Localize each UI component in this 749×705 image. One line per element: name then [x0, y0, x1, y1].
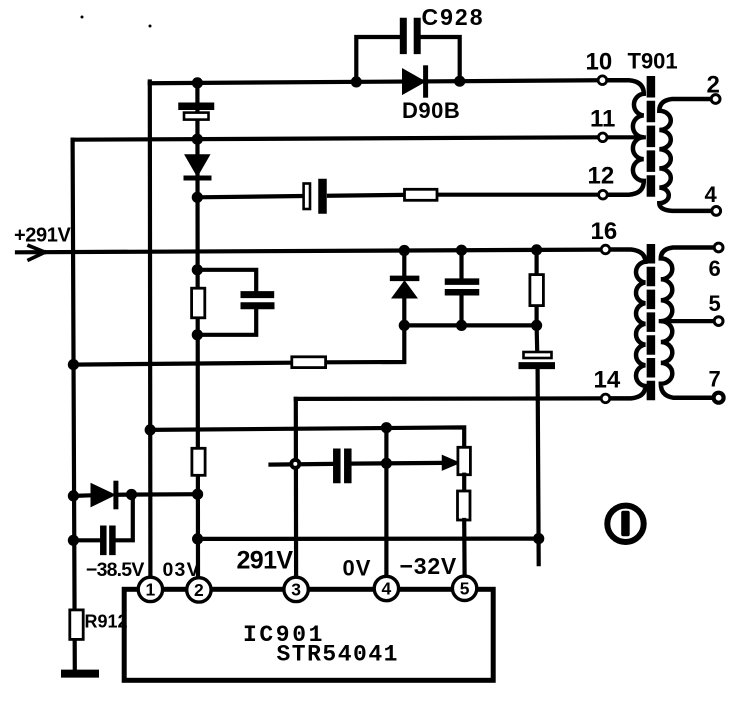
arrowhead at potentiometer: [443, 456, 459, 470]
capacitor C928 loop wire: [356, 37, 459, 82]
svg-text:T901: T901: [628, 49, 678, 74]
transformer T901 primary winding (terminals 10/11/12): [600, 80, 644, 194]
speck top left 2: [149, 25, 152, 28]
svg-text:12: 12: [588, 162, 615, 189]
wire line to terminal 12: [197, 195, 597, 198]
terminal 12: [599, 190, 608, 199]
junction diode line bus3: [192, 489, 203, 500]
svg-text:1: 1: [146, 580, 156, 600]
capacitor (arrow line x=340) plates: [337, 452, 348, 479]
capacitor (electrolytic x=537 below bus): [522, 325, 552, 564]
junction RC top: [192, 264, 203, 275]
wire terminal 11 to winding: [600, 135, 644, 139]
resistor (bus3 x=197 upper): [192, 288, 205, 318]
transformer T902 core: [647, 244, 656, 403]
pin 2 circle: [187, 578, 211, 602]
wire bus 3 vertical (x=197): [195, 82, 200, 576]
junction bus3 line12: [192, 192, 203, 203]
capacitor (parallel RC, x=256) wire loop: [197, 270, 256, 335]
capacitor (left, y540): [73, 494, 132, 552]
resistor (on y363 line): [292, 357, 326, 368]
svg-text:11: 11: [590, 106, 615, 133]
terminal 16: [601, 245, 610, 254]
wire pin3 vertical and corner to line14: [294, 399, 299, 576]
junction diode line cap stub: [126, 489, 137, 500]
symbol circled-I bar: [621, 511, 630, 537]
wire y363 from bus1 to lower bus: [73, 325, 404, 364]
resistor (x=536 between +291V and lower bus): [530, 250, 544, 325]
capacitor (electrolytic, on line12 x=316): [304, 183, 323, 210]
junction C928 right: [454, 76, 465, 87]
svg-text:10: 10: [586, 49, 613, 76]
junction bus3 top line: [192, 77, 203, 88]
svg-text:03V: 03V: [163, 559, 201, 581]
speck top left: [81, 16, 84, 19]
svg-text:D90B: D90B: [402, 98, 460, 123]
svg-text:+291V: +291V: [14, 225, 71, 247]
svg-text:2: 2: [707, 72, 720, 99]
transformer T902 secondary winding (terminals 6/5/7): [661, 248, 713, 398]
terminal 5: [714, 317, 723, 326]
ground (chassis bar): [65, 670, 95, 678]
svg-text:4: 4: [382, 579, 392, 599]
junction arrow line pin4: [381, 458, 392, 469]
wire terminal 5 to winding: [661, 319, 712, 323]
transformer T901 secondary winding (terminals 2/4): [659, 99, 710, 211]
wire +291V main line to terminal 16: [17, 250, 601, 253]
pin 5 circle: [452, 576, 476, 600]
diode (zener, bus3, x=197): [186, 155, 209, 178]
terminal 2: [711, 95, 720, 104]
diode D90B: [403, 68, 426, 95]
junction resistor top x536: [531, 244, 542, 255]
wire line to terminal 14: [296, 396, 601, 401]
junction y539 right end: [533, 533, 544, 544]
capacitor (parallel RC) plates: [244, 295, 271, 306]
terminal 4: [712, 207, 721, 216]
junction bus1 y363: [68, 359, 79, 370]
wire lower bus y=325: [404, 323, 536, 327]
capacitor (electrolytic, bus3 top, x=197): [182, 106, 211, 119]
svg-text:5: 5: [709, 291, 721, 316]
wire pin5 vertical: [462, 520, 467, 576]
terminal 11: [598, 133, 607, 142]
wire pot to resistor: [462, 475, 466, 491]
resistor (bus3 x=198 lower): [192, 448, 205, 475]
svg-text:7: 7: [709, 366, 721, 391]
wire line to terminal 11: [73, 137, 597, 139]
junction bus1 diode line: [68, 490, 79, 501]
svg-text:R912: R912: [85, 611, 128, 631]
wire y539 line: [198, 536, 539, 541]
diode (left, y494, pointing right): [73, 483, 197, 507]
junction bus1 cap line: [68, 535, 79, 546]
pin 3 circle: [284, 577, 308, 601]
resistor (x=464 below pot): [458, 491, 471, 520]
capacitor C928 plates: [403, 21, 417, 50]
+291V source arrow: [29, 246, 45, 260]
junction bus3 line11: [192, 134, 203, 145]
junction bus3 y539: [192, 533, 203, 544]
svg-text:291V: 291V: [237, 547, 294, 575]
svg-text:6: 6: [709, 256, 721, 281]
svg-text:5: 5: [460, 579, 470, 599]
junction lower bus x404: [399, 320, 410, 331]
transformer T902 primary winding (terminals 16/14): [610, 250, 645, 399]
junction pin4 top: [381, 422, 392, 433]
wire pin4 vertical: [384, 428, 388, 576]
svg-text:14: 14: [594, 367, 621, 394]
svg-text:3: 3: [291, 580, 301, 600]
terminal 6: [714, 243, 723, 252]
potentiometer (x=464): [458, 447, 471, 474]
junction RC bottom: [192, 329, 203, 340]
pin 4 circle: [374, 576, 398, 600]
svg-text:C928: C928: [422, 4, 485, 30]
capacitor (x=461 between +291V and lower bus): [448, 250, 476, 325]
wire bus 2 vertical (x=150): [148, 82, 153, 576]
svg-text:4: 4: [705, 182, 718, 207]
terminal 10: [598, 76, 607, 85]
terminal 7: [714, 393, 724, 403]
resistor (on line12 x=420): [405, 189, 438, 200]
svg-text:−32V: −32V: [400, 553, 458, 579]
symbol circled-I marker: [607, 506, 643, 542]
diode (x=404 pointing up): [393, 250, 417, 325]
wire y428 line from bus2 to potentiometer: [150, 427, 464, 447]
junction lower bus x536: [531, 320, 542, 331]
svg-text:16: 16: [591, 218, 618, 245]
wire arrow line y463: [271, 463, 443, 465]
wire bus 1 left vertical: [73, 140, 75, 670]
junction diode top x404: [399, 245, 410, 256]
junction bus2 y428: [145, 424, 156, 435]
junction cap top x461: [456, 245, 467, 256]
terminal 14: [601, 394, 610, 403]
resistor R912: [70, 610, 83, 640]
svg-text:2: 2: [194, 580, 204, 600]
svg-text:−38.5V: −38.5V: [86, 559, 144, 581]
IC901 box: [124, 589, 493, 680]
crossover hop on arrow line at pin3 vertical: [291, 460, 299, 468]
junction lower bus x461: [456, 320, 467, 331]
transformer T901 core: [647, 76, 656, 199]
wire top line from bus2 corner to terminal 10: [150, 80, 596, 83]
svg-text:STR54041: STR54041: [277, 641, 399, 667]
junction C928 left: [351, 76, 362, 87]
pin 1 circle: [138, 577, 162, 601]
svg-text:0V: 0V: [343, 556, 372, 581]
